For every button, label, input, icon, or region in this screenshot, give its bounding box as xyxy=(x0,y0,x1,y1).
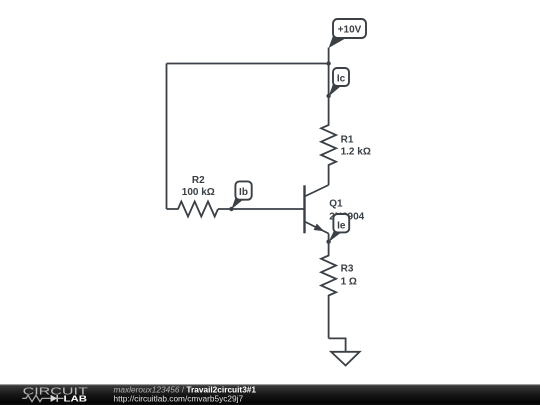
logo diode xyxy=(51,395,58,402)
resistor R2 xyxy=(167,202,219,217)
wire node to R1 xyxy=(328,64,330,97)
wire supply drop from +10V to top node xyxy=(328,48,330,64)
svg-text:Ie: Ie xyxy=(337,220,346,231)
wire emitter to node xyxy=(328,234,330,242)
resistor R1 xyxy=(321,96,336,185)
svg-text:1 Ω: 1 Ω xyxy=(341,276,357,287)
power flag +10V xyxy=(329,19,366,48)
svg-text:100 kΩ: 100 kΩ xyxy=(182,187,215,198)
transistor Q1 emitter arrow xyxy=(314,224,325,232)
transistor Q1 emitter lead xyxy=(305,222,329,234)
footer bar xyxy=(0,384,540,405)
current label Ib xyxy=(231,181,251,209)
wire ground jog xyxy=(329,338,346,351)
svg-text:+10V: +10V xyxy=(338,24,362,35)
svg-text:http://circuitlab.com/cmvarb5y: http://circuitlab.com/cmvarb5yc29j7 xyxy=(114,393,244,403)
transistor Q1 base bar xyxy=(303,185,305,233)
node dot Ib xyxy=(229,207,233,211)
logo resistor squiggle xyxy=(22,395,50,401)
node dot Ic xyxy=(326,94,330,98)
svg-text:R2: R2 xyxy=(192,175,205,186)
current label Ic xyxy=(329,68,349,97)
svg-text:Ib: Ib xyxy=(239,187,248,198)
transistor Q1 collector lead xyxy=(305,185,329,197)
svg-text:Ic: Ic xyxy=(337,73,346,84)
node dot top junction xyxy=(326,61,330,65)
svg-text:LAB: LAB xyxy=(64,393,88,403)
resistor R3 xyxy=(321,242,336,339)
svg-text:R1: R1 xyxy=(341,135,354,146)
wire left vertical xyxy=(166,64,168,210)
svg-text:1.2 kΩ: 1.2 kΩ xyxy=(341,147,371,158)
wire base wire R2 to Q1 xyxy=(218,208,305,210)
wire top horizontal xyxy=(167,63,329,65)
svg-text:Q1: Q1 xyxy=(329,199,343,210)
ground xyxy=(331,352,360,366)
current label Ie xyxy=(328,214,349,242)
node dot Ie xyxy=(326,240,330,244)
svg-text:R3: R3 xyxy=(341,264,354,275)
